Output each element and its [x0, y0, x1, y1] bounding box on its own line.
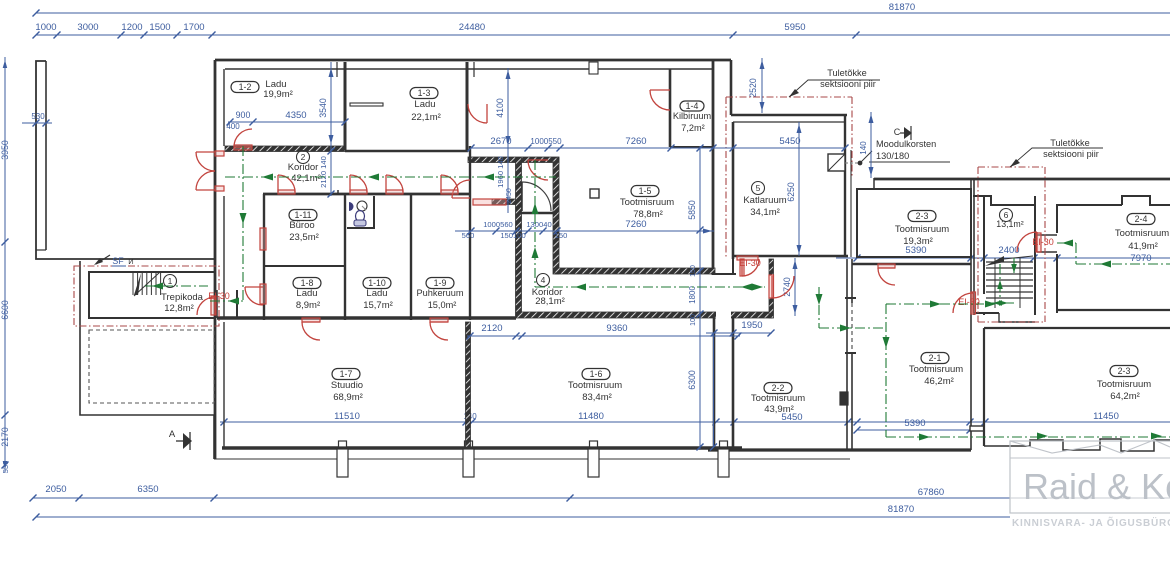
svg-text:1: 1: [168, 276, 173, 286]
svg-text:5: 5: [756, 183, 761, 193]
dimension 2520 vertical: [761, 58, 763, 113]
svg-text:1-9: 1-9: [434, 278, 447, 288]
wall 2-1 right: [970, 178, 972, 450]
svg-text:Trepikoda: Trepikoda: [161, 292, 204, 303]
svg-text:sektsiooni piir: sektsiooni piir: [1043, 149, 1099, 159]
escape route corridor vertical: [242, 146, 244, 301]
svg-text:140: 140: [859, 141, 868, 155]
hatched wall corridor 4 bottom: [516, 312, 772, 318]
svg-text:C: C: [894, 127, 901, 137]
fire boundary trepikoda: [74, 266, 219, 326]
svg-text:1950: 1950: [741, 320, 762, 331]
wall bottom lower-left step: [80, 261, 214, 459]
svg-text:2-1: 2-1: [929, 353, 942, 363]
svg-text:150: 150: [555, 231, 568, 240]
pilaster stubs bottom wall: [337, 449, 348, 477]
vertical dimension 2740: [794, 258, 796, 316]
chimney moodulkorsten symbol: [828, 154, 845, 171]
wall ladu 1-10 right: [410, 194, 412, 320]
svg-text:530: 530: [1, 461, 10, 474]
wall left annex: [36, 61, 215, 259]
svg-text:67860: 67860: [918, 487, 944, 498]
svg-text:1000: 1000: [35, 22, 56, 33]
svg-text:Ladu: Ladu: [296, 288, 317, 299]
logo raid&ko: [1010, 441, 1170, 513]
svg-text:6350: 6350: [137, 484, 158, 495]
svg-text:A: A: [169, 429, 176, 440]
svg-text:2: 2: [301, 152, 306, 162]
door room 1-8 corridor: [260, 284, 266, 304]
label room 2-4: [1127, 214, 1155, 225]
wall crossbar 2-1/bottom building: [970, 426, 984, 431]
svg-text:EI-30: EI-30: [208, 291, 230, 301]
wall vestibule: [236, 290, 238, 318]
wall room 1-2 / 1-3 divider: [344, 62, 347, 150]
svg-text:EI-30: EI-30: [739, 258, 761, 268]
hatched wall nook right vertical: [553, 158, 559, 274]
svg-text:42,1m²: 42,1m²: [291, 173, 321, 184]
dimension 1950: [706, 332, 772, 334]
svg-text:Ladu: Ladu: [414, 99, 435, 110]
terrace dashed outline: [89, 330, 214, 403]
svg-text:13,1m²: 13,1m²: [996, 219, 1023, 229]
svg-text:Tootmisruum: Tootmisruum: [620, 197, 674, 208]
door room 1-10: [350, 190, 367, 194]
wall left exterior: [214, 60, 217, 459]
label room 1-6: [582, 369, 610, 380]
svg-text:4350: 4350: [285, 110, 306, 121]
svg-text:530: 530: [31, 112, 45, 121]
svg-text:2120: 2120: [481, 323, 502, 334]
door nook red: [528, 160, 548, 180]
label room 2-3 19.3: [908, 211, 936, 222]
svg-text:SF: SF: [112, 256, 124, 266]
svg-text:1500: 1500: [149, 22, 170, 33]
svg-text:1-3: 1-3: [418, 88, 431, 98]
escape route hall right: [819, 327, 886, 329]
door trepikoda EI-30: [211, 296, 216, 315]
svg-text:1000550: 1000550: [530, 137, 562, 146]
svg-text:22,1m²: 22,1m²: [411, 112, 441, 123]
wall right building left: [873, 178, 875, 190]
door room 1-2: [234, 145, 252, 150]
fire boundary katlaruum: [725, 97, 727, 258]
svg-text:4: 4: [541, 275, 546, 285]
label room 1-8: [293, 278, 321, 289]
hatched wall stuudio/1-6 divider: [466, 322, 471, 447]
svg-text:Tuletõkke: Tuletõkke: [827, 68, 867, 78]
door katlaruum EI-30: [737, 256, 758, 260]
wall 2-2 left: [732, 318, 735, 450]
wall bottom-right building top: [984, 327, 1170, 329]
wall wc: [347, 196, 374, 228]
escape route right building: [1076, 263, 1170, 265]
hatched wall nook left vertical: [516, 158, 522, 316]
svg-text:Puhkeruum: Puhkeruum: [417, 288, 464, 298]
hatched wall tootmisruum 1-5 bottom: [555, 268, 715, 274]
svg-text:3540: 3540: [318, 98, 328, 118]
door stairs/2-4 EI-30: [1036, 233, 1041, 252]
svg-text:Stuudio: Stuudio: [331, 380, 363, 391]
svg-text:68,9m²: 68,9m²: [333, 392, 363, 403]
dimension chain 1000/3000/1200/1500/1700/24480/5950: [36, 34, 1170, 36]
svg-text:9360: 9360: [606, 323, 627, 334]
svg-text:12,8m²: 12,8m²: [164, 303, 194, 314]
svg-text:1700: 1700: [183, 22, 204, 33]
svg-text:2520: 2520: [748, 78, 758, 98]
wall room 2-4: [1057, 196, 1170, 233]
svg-text:EI-30: EI-30: [958, 297, 980, 307]
svg-text:Ladu: Ladu: [366, 288, 387, 299]
door stuudio 1: [302, 318, 320, 322]
label trepikoda: [164, 275, 177, 288]
svg-text:7970: 7970: [1130, 253, 1151, 264]
svg-text:81870: 81870: [888, 504, 914, 515]
dimension line 1000560/130040/7260: [455, 230, 714, 232]
dimension 140 vertical: [870, 112, 872, 178]
svg-text:5390: 5390: [904, 418, 925, 429]
dimension line 2050/6350/67860: [33, 497, 1010, 499]
label room 6: [1000, 209, 1013, 222]
svg-text:6600: 6600: [0, 300, 10, 320]
svg-text:43,9m²: 43,9m²: [764, 404, 794, 415]
svg-text:78,8m²: 78,8m²: [633, 209, 663, 220]
wall right exterior of left building: [712, 60, 715, 275]
svg-text:1200: 1200: [121, 22, 142, 33]
svg-text:2-3: 2-3: [1118, 366, 1131, 376]
svg-text:2050: 2050: [45, 484, 66, 495]
svg-text:11510: 11510: [334, 411, 360, 422]
dimension line 2120/9360: [467, 335, 740, 337]
wall room 2-3 top: [857, 189, 971, 257]
svg-text:1-7: 1-7: [340, 369, 353, 379]
svg-text:1-2: 1-2: [239, 82, 252, 92]
svg-text:5950: 5950: [784, 22, 805, 33]
wall buroo bottom: [264, 265, 345, 267]
svg-text:4100: 4100: [495, 98, 505, 118]
svg-text:5850: 5850: [687, 200, 697, 220]
stairs trepikoda: [132, 273, 134, 295]
svg-text:1-6: 1-6: [590, 369, 603, 379]
svg-text:7260: 7260: [625, 136, 646, 147]
wall puhkeruum right: [469, 146, 471, 212]
wall katlaruum left: [730, 60, 733, 115]
svg-text:15,0m²: 15,0m²: [428, 300, 457, 310]
label room 2-2: [764, 383, 792, 394]
svg-text:Tuletõkke: Tuletõkke: [1050, 138, 1090, 148]
svg-text:2670: 2670: [490, 136, 511, 147]
svg-text:8,9m²: 8,9m²: [296, 300, 320, 311]
svg-text:1800: 1800: [688, 286, 697, 304]
wall katlaruum right: [844, 114, 846, 257]
svg-text:150100: 150100: [500, 231, 525, 240]
wall room 1-3 right: [466, 62, 469, 152]
door buroo: [278, 190, 295, 194]
label room 1-2: [231, 82, 259, 93]
wall top notch: [589, 62, 598, 74]
wall right building top: [874, 178, 1170, 181]
escape route stairs: [1013, 258, 1015, 276]
label room 1-7 stuudio: [332, 369, 360, 380]
svg-text:Tootmisruum: Tootmisruum: [909, 364, 963, 375]
svg-text:81870: 81870: [889, 2, 915, 13]
svg-text:6300: 6300: [687, 370, 697, 390]
wall door jamb 2-4: [1037, 234, 1057, 236]
svg-text:5450: 5450: [779, 136, 800, 147]
svg-text:Tootmisruum: Tootmisruum: [895, 224, 949, 235]
svg-text:Raid & Ko: Raid & Ko: [1023, 466, 1170, 507]
svg-text:130040: 130040: [526, 220, 551, 229]
stairs right building: [986, 261, 1033, 263]
door corridor 4 end: [769, 275, 774, 298]
wall katlaruum top: [731, 114, 847, 117]
svg-text:7,2m²: 7,2m²: [681, 123, 705, 133]
wall bottom exterior: [214, 458, 850, 460]
svg-text:3950: 3950: [0, 140, 10, 160]
svg-text:Tootmisruum: Tootmisruum: [1097, 379, 1151, 390]
wall bottom-right building bottom crenellated: [984, 439, 1170, 451]
svg-text:34,1m²: 34,1m²: [750, 207, 780, 218]
door 2-1/stairs EI-30: [971, 292, 976, 314]
svg-text:3000: 3000: [77, 22, 98, 33]
door stuudio 2: [430, 318, 448, 322]
svg-text:46,2m²: 46,2m²: [924, 376, 954, 387]
escape route bottom right: [886, 436, 1170, 438]
svg-text:Tootmisruum: Tootmisruum: [1115, 228, 1169, 239]
svg-text:130/180: 130/180: [876, 151, 909, 161]
svg-text:150: 150: [690, 265, 697, 277]
svg-text:6250: 6250: [786, 182, 796, 202]
hatched wall nook top: [492, 199, 516, 205]
svg-text:Tootmisruum: Tootmisruum: [751, 393, 805, 404]
dimension line 81870 top: [36, 12, 1170, 14]
svg-text:Koridor: Koridor: [288, 162, 319, 173]
hatched wall corridor 4 end: [769, 259, 774, 275]
svg-text:1-8: 1-8: [301, 278, 314, 288]
door corridor2/nook: [473, 199, 506, 205]
svg-text:100: 100: [690, 314, 697, 326]
svg-text:2-3: 2-3: [916, 211, 929, 221]
svg-text:400: 400: [226, 122, 240, 131]
wall buroo left: [263, 194, 265, 320]
left dimension chain 3950/6600/2170: [4, 57, 6, 472]
door nook black: [522, 182, 551, 211]
svg-text:Tootmisruum: Tootmisruum: [568, 380, 622, 391]
door room 2-1 top: [878, 264, 895, 268]
door main entrance double: [215, 151, 224, 156]
dimension 900/4350: [228, 121, 345, 123]
svg-text:83,4m²: 83,4m²: [582, 392, 612, 403]
svg-text:900: 900: [236, 110, 251, 120]
svg-text:41,9m²: 41,9m²: [1128, 241, 1158, 252]
fire boundary stair block: [977, 167, 979, 322]
label room 1-11 buroo: [289, 210, 317, 221]
vertical dimension 6250: [798, 122, 800, 256]
svg-text:Moodulkorsten: Moodulkorsten: [876, 139, 936, 149]
wall rooms bottom / stuudio top: [217, 316, 516, 319]
wall 1-6 right: [713, 318, 716, 450]
wall stub room 1-3: [350, 103, 383, 106]
label katlaruum: [752, 182, 765, 195]
wall room 1-3 bottom: [345, 150, 468, 153]
symbol column 1-5: [590, 189, 599, 198]
svg-text:1960 140: 1960 140: [496, 156, 505, 188]
label room 1-4: [680, 101, 704, 111]
label koridor 4: [537, 274, 550, 287]
svg-text:Büroo: Büroo: [289, 220, 314, 231]
wc fixtures: [349, 202, 354, 211]
svg-text:19,3m²: 19,3m²: [903, 236, 933, 247]
door room 1-3 right: [468, 104, 487, 123]
svg-text:1-5: 1-5: [639, 186, 652, 196]
wall kilbiruum bottom: [670, 146, 713, 148]
label room 1-5: [631, 186, 659, 197]
escape route room 2-1: [885, 304, 887, 437]
svg-text:11450: 11450: [1093, 411, 1119, 422]
vertical dimension 3540/2120: [330, 62, 332, 196]
wall kilbiruum 1-4 left: [669, 69, 672, 147]
wall nook bottom: [520, 212, 557, 215]
svg-text:sektsiooni piir: sektsiooni piir: [820, 79, 876, 89]
door kilbiruum: [650, 90, 670, 110]
dimension line 2670/1000550/7260/5450: [471, 147, 845, 149]
svg-text:1-10: 1-10: [368, 278, 386, 288]
svg-text:15,7m²: 15,7m²: [363, 300, 393, 311]
svg-text:2-2: 2-2: [772, 383, 785, 393]
label koridor 2: [297, 151, 310, 164]
wall right building bottom: [1040, 327, 1170, 329]
wall buroo right / ladu 1-10 left: [344, 194, 346, 320]
svg-text:KINNISVARA- JA ÕIGUSBÜROO: KINNISVARA- JA ÕIGUSBÜROO: [1012, 516, 1170, 529]
svg-text:И: И: [128, 257, 133, 266]
wall top exterior: [215, 59, 731, 62]
wall corridor 2 bottom: [263, 193, 471, 196]
svg-text:64,2m²: 64,2m²: [1110, 391, 1140, 402]
dimension line 5390/2400/7970: [836, 257, 1170, 259]
hatched wall corridor 2 top right: [468, 157, 559, 163]
label room 1-10: [363, 278, 391, 289]
svg-text:Kilbiruum: Kilbiruum: [673, 111, 712, 121]
escape route hall down: [818, 287, 820, 328]
wall corridor4 katlaruum side: [714, 273, 736, 275]
svg-text:2-4: 2-4: [1135, 214, 1148, 224]
vertical dimension 4100/1960: [507, 68, 509, 213]
label room 1-9: [426, 278, 454, 289]
svg-text:11480: 11480: [578, 411, 604, 422]
svg-text:EI-30: EI-30: [1032, 237, 1054, 247]
wall katlaruum bottom: [733, 255, 848, 258]
escape route corridor 4: [535, 286, 765, 288]
svg-text:2170: 2170: [0, 427, 10, 447]
dimension line 81870 bottom: [36, 516, 1010, 518]
door buroo left leaf: [260, 228, 266, 250]
svg-text:560: 560: [462, 231, 475, 240]
svg-text:28,1m²: 28,1m²: [535, 296, 565, 307]
wall stair block: [973, 196, 1035, 315]
label room 2-1: [921, 353, 949, 364]
dimension line 5390 room 2-1: [857, 429, 970, 431]
svg-text:19,9m²: 19,9m²: [263, 89, 293, 100]
section marker SF: [96, 255, 110, 264]
moodulkorsten leader: [845, 162, 858, 164]
svg-text:Katlaruum: Katlaruum: [743, 195, 786, 206]
escape route nook vertical: [534, 160, 536, 287]
vertical dimension chain 5850/1800/6300: [699, 146, 701, 449]
svg-text:2450: 2450: [506, 188, 513, 204]
dimension line 11510/140/11480/5450/11450: [220, 421, 1170, 423]
svg-text:23,5m²: 23,5m²: [289, 232, 319, 243]
label room 1-3: [410, 88, 438, 99]
svg-text:1-11: 1-11: [295, 210, 312, 220]
hatched wall corridor 2 top left: [225, 146, 345, 152]
escape route trepikoda: [210, 300, 243, 302]
svg-text:7260: 7260: [625, 219, 646, 230]
svg-text:1000560: 1000560: [483, 220, 513, 229]
label room 2-3 64.2: [1110, 366, 1138, 377]
svg-text:24480: 24480: [459, 22, 485, 33]
wall trepikoda: [89, 272, 215, 318]
wall 2-2/2-1 divider: [846, 259, 848, 450]
escape route corridor 2: [225, 176, 556, 178]
wall 2-1 top: [852, 263, 971, 265]
svg-text:1-4: 1-4: [686, 101, 699, 111]
door puhkeruum: [441, 190, 458, 194]
